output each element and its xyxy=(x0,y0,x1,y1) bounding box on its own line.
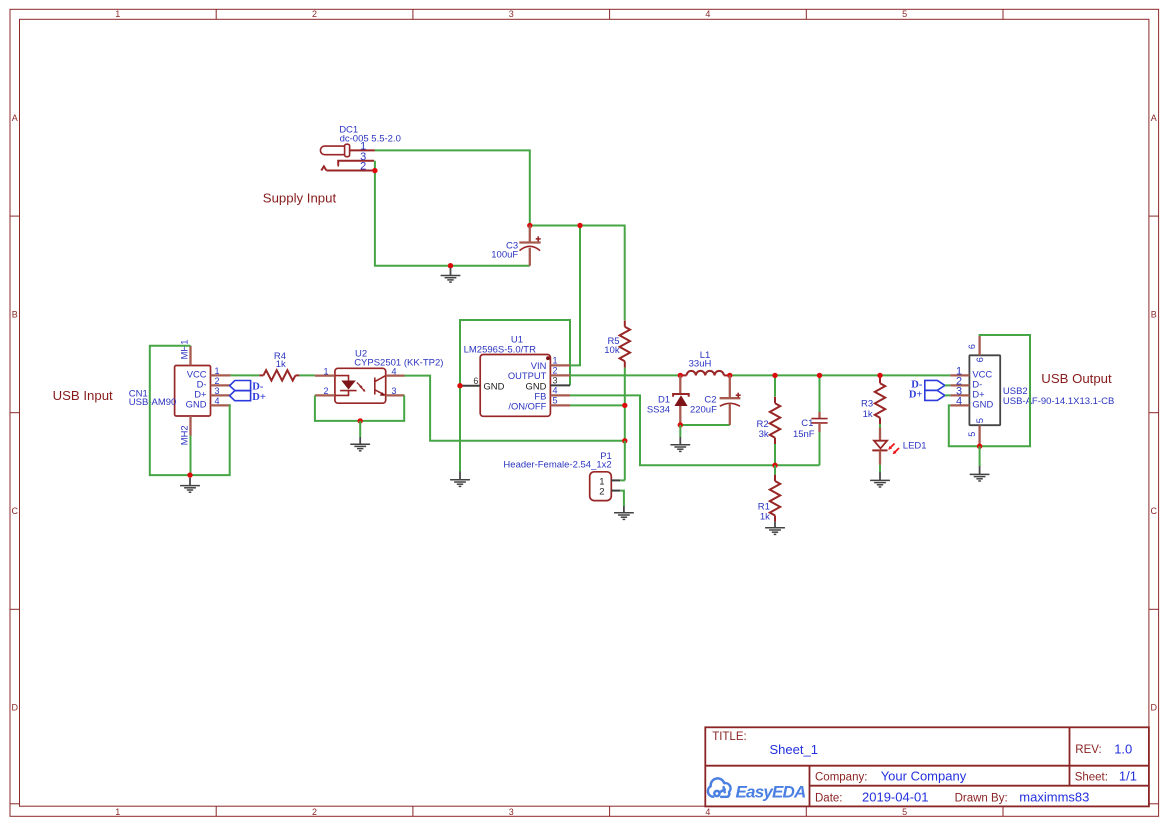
svg-text:B: B xyxy=(12,309,18,319)
netport D+ wire xyxy=(945,394,951,396)
ground USB2 xyxy=(979,466,981,474)
connector CN1 body xyxy=(175,366,211,417)
svg-text:100uF: 100uF xyxy=(491,249,518,260)
LED1 arrows xyxy=(888,444,899,455)
svg-text:LM2596S-5.0/TR: LM2596S-5.0/TR xyxy=(464,344,536,355)
svg-text:15nF: 15nF xyxy=(793,429,815,440)
svg-text:3: 3 xyxy=(509,9,514,19)
svg-text:GND: GND xyxy=(972,398,993,409)
svg-text:Date:: Date: xyxy=(815,792,843,804)
EasyEDA logo xyxy=(708,778,731,797)
junction C1 top xyxy=(817,373,822,378)
svg-text:1: 1 xyxy=(115,807,120,817)
wire DC1.1 to C3 top xyxy=(375,150,530,225)
svg-text:A: A xyxy=(12,113,18,123)
svg-text:USB Output: USB Output xyxy=(1041,371,1112,386)
svg-text:1/1: 1/1 xyxy=(1119,769,1137,784)
wire C1 top xyxy=(819,375,821,412)
wire U2 gnd stub xyxy=(359,421,361,437)
resistor R1 xyxy=(774,475,776,481)
U2 pin 1 stub xyxy=(315,374,335,376)
svg-text:TITLE:: TITLE: xyxy=(712,731,747,743)
wire U2 pins 2-3 loop xyxy=(315,395,404,421)
wire R1 top xyxy=(774,465,776,474)
junction DC1 pins 2/3 xyxy=(372,168,377,173)
DC1 pin 2 with switch xyxy=(327,170,373,172)
junction L1 left xyxy=(678,373,683,378)
junction VIN branch xyxy=(577,223,582,228)
U1 pin 4 stub xyxy=(550,394,570,396)
wire CN1 VCC to R4 xyxy=(231,374,260,376)
svg-text:4: 4 xyxy=(956,395,962,407)
wire FB rail xyxy=(570,395,820,465)
ground supply xyxy=(450,268,452,276)
header P1 body xyxy=(590,472,612,501)
U1 pin 5 stub xyxy=(550,404,570,406)
svg-text:R3: R3 xyxy=(861,399,873,410)
svg-text:2019-04-01: 2019-04-01 xyxy=(862,789,929,804)
wire DC1.2 down to bottom rail xyxy=(375,171,530,266)
capacitor C3 xyxy=(529,226,531,243)
junction L1 right xyxy=(727,373,732,378)
junction U2 collector node xyxy=(622,438,627,443)
optocoupler U2 body xyxy=(335,368,386,403)
ground U2 xyxy=(359,437,361,444)
svg-text:4: 4 xyxy=(214,396,219,406)
junction USB2 gnd xyxy=(977,444,982,449)
CN1 pin 2 stub xyxy=(211,384,231,386)
svg-text:2: 2 xyxy=(599,487,604,498)
junction U2 gnd xyxy=(358,418,363,423)
svg-text:dc-005 5.5-2.0: dc-005 5.5-2.0 xyxy=(340,133,401,144)
wire D1 gnd xyxy=(679,425,681,437)
svg-text:2: 2 xyxy=(214,376,219,386)
ground D1 xyxy=(679,437,681,445)
svg-text:3: 3 xyxy=(214,386,219,396)
junction R5 ON/OFF xyxy=(622,403,627,408)
svg-text:1k: 1k xyxy=(863,409,873,420)
svg-text:2: 2 xyxy=(360,161,366,173)
svg-text:Sheet_1: Sheet_1 xyxy=(770,742,818,757)
junction R2 top xyxy=(772,373,777,378)
svg-text:USB-AF-90-14.1X13.1-CB: USB-AF-90-14.1X13.1-CB xyxy=(1003,396,1114,407)
CN1 pin 1 stub xyxy=(211,374,231,376)
diode D1 xyxy=(679,375,681,394)
wire CN1 GND pin down xyxy=(190,405,231,475)
svg-text:MH1: MH1 xyxy=(179,340,190,360)
U2 pin 2 stub xyxy=(315,394,335,396)
svg-text:MH2: MH2 xyxy=(179,425,190,445)
svg-text:Company:: Company: xyxy=(815,772,867,784)
junction CN1 gnd xyxy=(187,472,192,477)
U2 internal LED xyxy=(335,376,349,381)
title block grid xyxy=(705,727,1149,806)
ground LED1 xyxy=(879,472,881,480)
svg-text:2: 2 xyxy=(312,807,317,817)
svg-text:33uH: 33uH xyxy=(689,359,712,370)
junction U1 pin6 xyxy=(457,383,462,388)
svg-text:5: 5 xyxy=(967,432,977,437)
capacitor C2 xyxy=(729,375,731,398)
svg-text:4: 4 xyxy=(553,386,558,396)
svg-text:A: A xyxy=(1151,113,1157,123)
U1 pin1 dot xyxy=(546,356,550,360)
svg-text:3: 3 xyxy=(391,386,396,396)
USB2 pin 4 stub xyxy=(950,404,969,406)
svg-text:1.0: 1.0 xyxy=(1114,741,1132,756)
netport D+ (CN1) xyxy=(230,391,251,401)
USB2 pin 5 stub xyxy=(978,425,980,445)
wire U1 ON/OFF xyxy=(570,404,625,406)
U1 pin 2 stub xyxy=(550,374,570,376)
svg-text:REV:: REV: xyxy=(1075,744,1101,756)
svg-text:C1: C1 xyxy=(801,418,813,429)
junction R3 top xyxy=(877,373,882,378)
svg-text:Drawn By:: Drawn By: xyxy=(955,792,1008,804)
svg-text:Header-Female-2.54_1x2: Header-Female-2.54_1x2 xyxy=(503,460,611,471)
wire L1 to USB2 VCC xyxy=(730,374,951,376)
svg-text:EasyEDA: EasyEDA xyxy=(736,782,807,801)
svg-text:2: 2 xyxy=(323,386,328,396)
svg-text:6: 6 xyxy=(974,357,985,362)
wire R4 to U2 pin1 xyxy=(299,374,315,376)
junction supply gnd xyxy=(448,263,453,268)
U2 pin 3 stub xyxy=(386,394,405,396)
svg-text:3: 3 xyxy=(553,376,558,386)
wire node to P1 pin1 xyxy=(624,441,626,481)
wire DC1.3 to DC1.2 xyxy=(374,161,376,171)
svg-text:C: C xyxy=(1151,506,1158,516)
resistor R3 xyxy=(879,377,881,383)
USB2 pin 6 stub xyxy=(978,336,980,355)
wire LED1 to gnd xyxy=(879,465,881,472)
svg-text:C: C xyxy=(11,506,18,516)
U2 light arrows xyxy=(357,382,366,391)
U1 pin 3 stub xyxy=(550,384,570,386)
wire U1 gnd loop xyxy=(460,320,570,386)
USB2 pin 2 stub xyxy=(950,384,969,386)
capacitor C1 xyxy=(818,412,820,419)
wire U2 pin4 to node xyxy=(405,376,625,441)
wire R5 bottom to ON/OFF node xyxy=(624,368,626,441)
wire USB2 pin6 loop xyxy=(980,335,1030,446)
wire R3 to LED1 xyxy=(879,424,881,428)
ground P1 xyxy=(623,506,625,513)
inductor L1 xyxy=(680,374,686,376)
junction C3 top xyxy=(527,223,532,228)
svg-text:5: 5 xyxy=(553,396,558,406)
svg-text:1: 1 xyxy=(553,356,558,366)
svg-text:5: 5 xyxy=(902,807,907,817)
netport D- (CN1) xyxy=(230,381,251,391)
svg-text:220uF: 220uF xyxy=(690,404,717,415)
wire D1 to C2 bottom xyxy=(680,424,730,426)
svg-text:Your Company: Your Company xyxy=(881,769,967,784)
svg-text:D+: D+ xyxy=(252,392,266,403)
wire R2 bottom xyxy=(774,444,776,465)
U2 phototransistor xyxy=(374,378,376,395)
wire P1 pin1 link xyxy=(620,479,625,481)
wire R3 top xyxy=(879,375,881,377)
wire USB2 gnd stub xyxy=(979,446,981,466)
P1 pin 2 stub xyxy=(611,490,620,492)
svg-text:10k: 10k xyxy=(604,345,620,356)
svg-text:5: 5 xyxy=(902,9,907,19)
connector DC1 barrel xyxy=(320,146,345,155)
svg-text:B: B xyxy=(1151,309,1157,319)
ground R1 xyxy=(774,522,776,528)
wire CN1 MH1 loop xyxy=(150,346,191,475)
svg-text:/ON/OFF: /ON/OFF xyxy=(508,401,546,412)
svg-text:D: D xyxy=(11,703,18,713)
wire branch down to U1 VIN xyxy=(570,226,580,366)
LED LED1 xyxy=(879,428,881,441)
CN1 pin 3 stub xyxy=(211,394,231,396)
ground U1 xyxy=(459,472,461,480)
connector USB2 body xyxy=(969,355,1000,425)
junction FB R2 xyxy=(772,463,777,468)
svg-text:Sheet:: Sheet: xyxy=(1075,772,1108,784)
svg-text:GND: GND xyxy=(186,398,207,409)
wire U1 pin6 to gnd xyxy=(459,386,461,472)
svg-text:1k: 1k xyxy=(276,359,286,370)
DC1 pin 1 xyxy=(350,149,375,151)
svg-text:1: 1 xyxy=(214,366,219,376)
CN1 MH2 stub xyxy=(189,416,191,436)
svg-text:CYPS2501 (KK-TP2): CYPS2501 (KK-TP2) xyxy=(354,357,443,368)
svg-text:6: 6 xyxy=(967,344,977,349)
wire C3 node to R5 branch xyxy=(530,226,625,321)
netport D- (USB2) xyxy=(925,380,945,390)
svg-text:2: 2 xyxy=(553,366,558,376)
P1 pin 1 stub xyxy=(611,479,620,481)
U1 pin 1 stub xyxy=(550,364,570,366)
svg-text:6: 6 xyxy=(473,376,478,386)
wire USB2 pin4 to gnd xyxy=(949,405,980,446)
wire R2 top xyxy=(774,375,776,396)
resistor R5 xyxy=(624,321,626,327)
svg-text:5: 5 xyxy=(974,418,985,423)
svg-text:USB Input: USB Input xyxy=(53,388,113,403)
U2 pin 4 stub xyxy=(386,374,405,376)
svg-text:2: 2 xyxy=(312,9,317,19)
svg-text:3k: 3k xyxy=(759,429,769,440)
svg-text:D: D xyxy=(1151,703,1158,713)
svg-text:GND: GND xyxy=(484,380,505,391)
svg-text:SS34: SS34 xyxy=(647,404,670,415)
svg-text:LED1: LED1 xyxy=(903,441,927,452)
resistor R4 xyxy=(259,374,263,376)
svg-text:4: 4 xyxy=(705,9,710,19)
USB2 pin 1 stub xyxy=(950,374,969,376)
resistor R2 xyxy=(774,397,776,403)
svg-text:1: 1 xyxy=(115,9,120,19)
svg-text:D+: D+ xyxy=(909,389,923,400)
wire P1 pin2 to gnd xyxy=(620,491,624,506)
DC1 pin 3 xyxy=(338,161,374,165)
svg-text:USB-AM90: USB-AM90 xyxy=(129,397,177,408)
CN1 MH1 stub xyxy=(189,346,191,366)
svg-text:maximms83: maximms83 xyxy=(1019,790,1089,805)
ground CN1 xyxy=(189,478,191,486)
wire CN1 MH2 to gnd xyxy=(190,436,192,476)
wire U1 OUTPUT to L1 xyxy=(570,374,680,376)
svg-text:1k: 1k xyxy=(760,512,770,523)
netport D+ (USB2) xyxy=(925,391,945,401)
CN1 pin 4 stub xyxy=(211,404,231,406)
svg-text:3: 3 xyxy=(509,807,514,817)
USB2 pin 3 stub xyxy=(950,394,969,396)
regulator U1 body xyxy=(480,355,550,417)
junction D1 anode xyxy=(678,422,683,427)
svg-text:Supply Input: Supply Input xyxy=(263,190,337,205)
svg-text:1: 1 xyxy=(323,366,328,376)
netport D- wire xyxy=(945,384,951,386)
U1 pin 6 stub xyxy=(460,385,480,387)
svg-text:4: 4 xyxy=(705,807,710,817)
